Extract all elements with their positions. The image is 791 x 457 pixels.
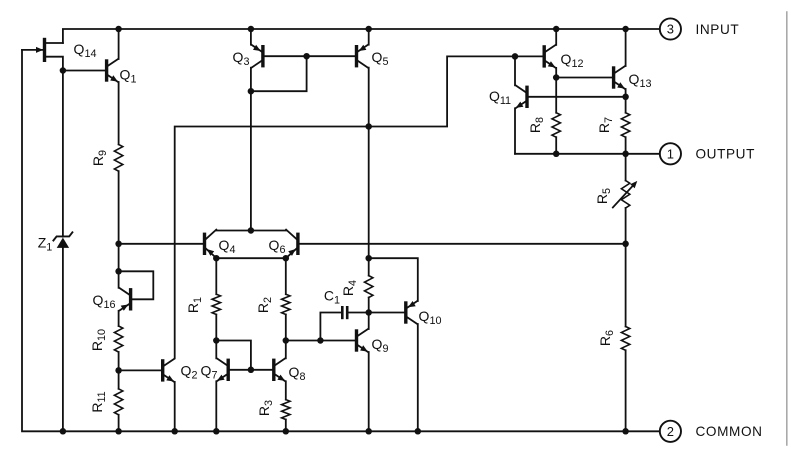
wire Q10 emitter feed — [369, 258, 418, 301]
wire left rail from Q14 gate to common — [22, 50, 63, 431]
node bias row left end — [115, 241, 122, 248]
wire Q7 collector-base loop — [216, 341, 251, 370]
transistor Q4 — [205, 230, 217, 258]
label Q5 — [372, 49, 389, 68]
node R2 bottom / Q8 collector — [283, 337, 290, 344]
svg-text:Q5: Q5 — [372, 49, 389, 68]
svg-text:Q4: Q4 — [219, 237, 236, 256]
node R1 bottom / Q7 collector — [213, 337, 220, 344]
transistor Q10 — [406, 301, 418, 431]
node Q10 collector on common — [415, 428, 422, 435]
node Q6 emitter / R2 top — [283, 255, 290, 262]
svg-text:Q2: Q2 — [181, 363, 198, 382]
resistor R4 — [365, 276, 373, 313]
label Q7 — [201, 363, 218, 382]
node Q9 collector / R4 / C1 / Q10 base — [365, 309, 372, 316]
transistor Q16 — [119, 271, 154, 326]
terminal 3 INPUT — [660, 18, 681, 39]
transistor Q14 (JFET) — [22, 40, 63, 71]
label C1 — [324, 288, 340, 307]
svg-text:R2: R2 — [255, 297, 274, 313]
svg-text:Q11: Q11 — [489, 88, 511, 107]
wire R9 to bias node — [118, 171, 120, 244]
svg-text:3: 3 — [667, 22, 674, 37]
transistor Q1 — [63, 29, 119, 144]
wire bias column below R9 — [118, 244, 120, 271]
node Q7 emitter on common — [213, 428, 220, 435]
node Q1 base / Z1 top — [60, 67, 67, 74]
svg-text:R6: R6 — [597, 330, 616, 346]
label R9 — [90, 150, 109, 166]
node Q5 emitter on rail — [365, 26, 372, 33]
resistor R3 — [282, 400, 290, 432]
resistor R9 — [114, 144, 122, 171]
label R3 — [256, 400, 275, 416]
transistor Q8 — [251, 341, 286, 400]
label Q9 — [372, 336, 389, 355]
terminal 2 COMMON — [660, 421, 681, 442]
label R7 — [596, 117, 615, 133]
label Q10 — [419, 308, 442, 327]
wire Q2-base node to R11 — [118, 370, 120, 388]
wire common rail — [63, 430, 626, 432]
svg-text:Q14: Q14 — [74, 41, 97, 60]
svg-text:R11: R11 — [89, 391, 108, 412]
wire bias row left segment — [119, 243, 203, 245]
node Q7/Q8 base junction — [248, 367, 255, 374]
node Z1 on common rail — [60, 428, 67, 435]
svg-text:C1: C1 — [324, 288, 340, 307]
page edge line — [786, 12, 788, 445]
wire top input rail — [63, 29, 660, 43]
label Z1 — [38, 235, 53, 254]
label Q2 — [181, 363, 198, 382]
label R4 — [340, 280, 359, 296]
wire R11 to common — [118, 415, 120, 432]
wire R10 to Q2 base node — [118, 352, 120, 370]
svg-text:Q10: Q10 — [419, 308, 442, 327]
node Q2 emitter on common — [171, 428, 178, 435]
svg-text:Q1: Q1 — [120, 67, 137, 86]
svg-text:2: 2 — [667, 424, 674, 439]
resistor R10 — [114, 326, 122, 352]
transistor Q12 — [544, 29, 556, 78]
transistor Q11 — [515, 56, 626, 153]
svg-text:R9: R9 — [90, 150, 109, 166]
node R5/R6 bias junction — [622, 241, 629, 248]
label Q13 — [629, 71, 652, 90]
wire Q10 base wire — [369, 312, 404, 314]
svg-text:Q12: Q12 — [561, 51, 584, 70]
node Q3/Q5 base junction — [303, 53, 310, 60]
label COMMON — [696, 424, 763, 439]
label R5 — [594, 188, 613, 204]
svg-text:R4: R4 — [340, 280, 359, 296]
node Q1 collector on input rail — [115, 26, 122, 33]
node Q12 emitter / R8 — [553, 74, 560, 81]
wire R4 top stub — [368, 258, 370, 275]
label R10 — [89, 329, 108, 351]
capacitor C1 — [342, 307, 368, 318]
node R4 top / Q10 feed — [365, 255, 372, 262]
label R11 — [89, 391, 108, 412]
svg-text:Q16: Q16 — [93, 292, 116, 311]
wire common stub to terminal 2 — [626, 430, 660, 432]
node C1 branch junction — [317, 337, 324, 344]
node Q11 collector / Q12 base junction — [512, 53, 519, 60]
resistor R8 — [552, 78, 560, 154]
node Q16 collector/base tie — [115, 268, 122, 275]
node Q2 base junction — [115, 367, 122, 374]
resistor R2 — [282, 258, 290, 340]
node Q9 emitter on common — [365, 428, 372, 435]
resistor R5 (adjustable) — [613, 154, 638, 244]
node R7 bottom / output — [622, 151, 629, 158]
label Q6 — [269, 237, 286, 256]
label R8 — [527, 117, 546, 133]
svg-text:INPUT: INPUT — [696, 22, 740, 37]
label Q12 — [561, 51, 584, 70]
node R11 bottom on common — [115, 428, 122, 435]
label Q16 — [93, 292, 116, 311]
node Q12 collector on rail — [553, 26, 560, 33]
svg-text:Q7: Q7 — [201, 363, 218, 382]
svg-text:R10: R10 — [89, 329, 108, 351]
terminal 1 OUTPUT — [660, 143, 681, 164]
svg-text:R7: R7 — [596, 117, 615, 133]
wire Q3/Q5 base junction drop — [251, 56, 307, 91]
svg-text:Z1: Z1 — [38, 235, 53, 254]
resistor R11 — [114, 389, 122, 415]
wire C1 branch riser — [320, 313, 341, 341]
label R6 — [597, 330, 616, 346]
transistor Q2 — [119, 359, 175, 431]
node Q3 emitter on rail — [248, 26, 255, 33]
node Q13 collector on rail — [622, 26, 629, 33]
label Q4 — [219, 237, 236, 256]
svg-text:Q9: Q9 — [372, 336, 389, 355]
label Q8 — [289, 364, 306, 383]
node R6 bottom on common — [622, 428, 629, 435]
wire diff pair emitter tie (bottom) — [216, 257, 285, 259]
svg-text:R1: R1 — [185, 297, 204, 313]
wire Q9 base row — [286, 340, 355, 342]
svg-text:COMMON: COMMON — [696, 424, 763, 439]
svg-text:R8: R8 — [527, 117, 546, 133]
transistor Q5 — [307, 29, 369, 258]
node Q4 emitter / R1 top — [213, 255, 220, 262]
resistor R7 — [621, 97, 629, 154]
label R1 — [185, 297, 204, 313]
zener diode Z1 — [53, 71, 72, 432]
node Q13 emitter / R7 / Q11 base — [622, 94, 629, 101]
svg-text:Q6: Q6 — [269, 237, 286, 256]
node R3 bottom on common — [283, 428, 290, 435]
resistor R6 — [621, 244, 629, 431]
label Q3 — [233, 49, 250, 68]
label INPUT — [696, 22, 740, 37]
node Q5 collector / feed junction — [365, 123, 372, 130]
transistor Q9 — [357, 313, 369, 432]
svg-text:Q8: Q8 — [289, 364, 306, 383]
label Q14 — [74, 41, 97, 60]
wire output line — [515, 153, 660, 155]
svg-text:R3: R3 — [256, 400, 275, 416]
node diff pair top / Q3 feed — [248, 227, 255, 234]
node R8 bottom — [553, 151, 560, 158]
label R2 — [255, 297, 274, 313]
svg-text:Q13: Q13 — [629, 71, 652, 90]
svg-text:R5: R5 — [594, 188, 613, 204]
svg-text:Q3: Q3 — [233, 49, 250, 68]
label Q11 — [489, 88, 511, 107]
wire Q3 collector to diff pair — [250, 91, 252, 230]
node Q3 collector tie — [248, 88, 255, 95]
label OUTPUT — [696, 147, 755, 162]
wire Q12 emitter to Q13 base — [556, 77, 612, 79]
transistor Q13 — [614, 29, 626, 97]
transistor Q7 — [216, 341, 251, 432]
wire Q2 collector feed line — [175, 56, 543, 358]
transistor Q6 — [286, 230, 298, 258]
label Q1 — [120, 67, 137, 86]
svg-text:OUTPUT: OUTPUT — [696, 147, 755, 162]
wire diff pair collector tie (top) — [216, 230, 286, 232]
wire bias row right segment — [300, 243, 626, 245]
svg-text:1: 1 — [667, 146, 674, 161]
resistor R1 — [212, 258, 220, 340]
transistor Q3 — [251, 29, 307, 91]
